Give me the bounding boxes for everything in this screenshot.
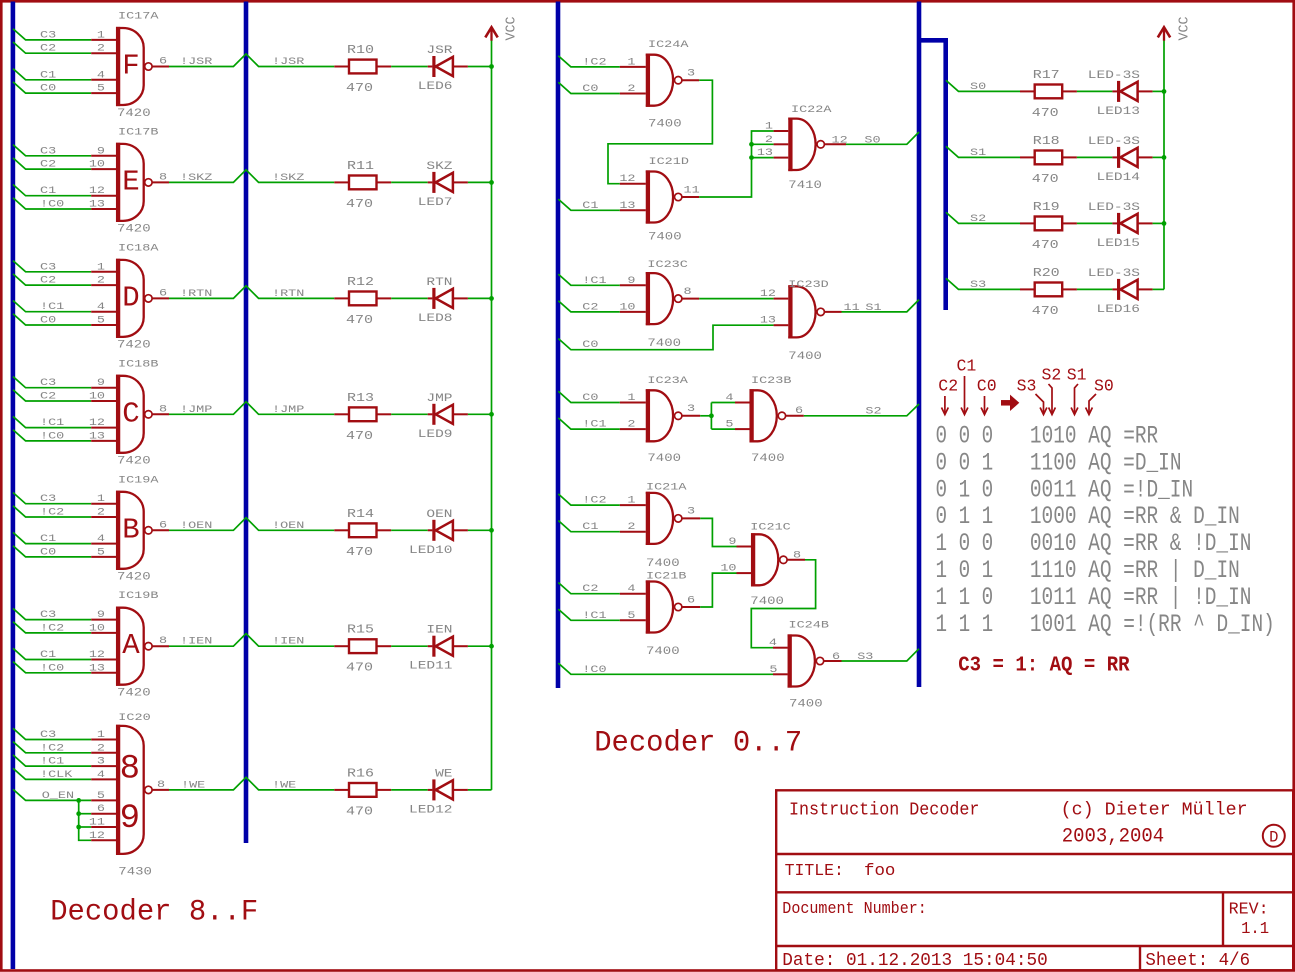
truth-table row 0 1 0 bbox=[936, 475, 1194, 504]
wire !OEN output to bus B2 bbox=[152, 518, 334, 531]
svg-text:11: 11 bbox=[684, 184, 700, 196]
svg-text:S0: S0 bbox=[864, 134, 880, 146]
svg-text:1011 AQ =RR | !D_IN: 1011 AQ =RR | !D_IN bbox=[1030, 583, 1252, 612]
svg-text:VCC: VCC bbox=[504, 17, 519, 41]
svg-text:4: 4 bbox=[769, 637, 777, 649]
svg-text:C3: C3 bbox=[40, 145, 56, 157]
svg-text:!IEN: !IEN bbox=[272, 635, 304, 647]
svg-text:C3 = 1: AQ = RR: C3 = 1: AQ = RR bbox=[958, 653, 1130, 677]
svg-text:RTN: RTN bbox=[426, 275, 452, 288]
svg-text:OEN: OEN bbox=[426, 507, 452, 520]
svg-text:Instruction Decoder: Instruction Decoder bbox=[789, 801, 979, 821]
svg-text:12: 12 bbox=[760, 287, 776, 299]
wire !C1 to IC18A pin 4 bbox=[13, 301, 116, 312]
wire C2 to IC18A pin 2 bbox=[13, 274, 116, 285]
wire LED15 to VCC rail bbox=[1153, 222, 1164, 224]
svg-text:F: F bbox=[122, 50, 139, 83]
svg-text:1010 AQ =RR: 1010 AQ =RR bbox=[1030, 421, 1158, 450]
wire IC21C out to IC24B pin 4 bbox=[751, 560, 815, 648]
svg-text:!C0: !C0 bbox=[582, 663, 606, 675]
truth-table row 1 1 0 bbox=[936, 583, 1252, 612]
svg-text:IC23A: IC23A bbox=[647, 375, 688, 387]
wire !C1 from bus B3 bbox=[558, 609, 646, 620]
svg-text:7420: 7420 bbox=[117, 107, 151, 119]
wire R10 to LED6 bbox=[391, 66, 428, 68]
svg-text:Document Number:: Document Number: bbox=[782, 900, 927, 919]
wire !C2 from bus B3 bbox=[558, 494, 646, 505]
VCC power arrow bbox=[485, 27, 497, 41]
junction bbox=[749, 142, 754, 147]
svg-text:5: 5 bbox=[97, 314, 105, 326]
VCC power arrow bbox=[1158, 27, 1170, 41]
svg-text:S0: S0 bbox=[970, 80, 986, 92]
arrow under C2 bbox=[944, 396, 946, 413]
svg-text:IC23B: IC23B bbox=[751, 375, 791, 387]
wire C3 to IC17B pin 9 bbox=[13, 145, 116, 156]
svg-text:4: 4 bbox=[97, 69, 105, 81]
svg-text:!SKZ: !SKZ bbox=[272, 171, 304, 183]
svg-text:1000 AQ =RR & D_IN: 1000 AQ =RR & D_IN bbox=[1030, 502, 1240, 531]
svg-text:S2: S2 bbox=[1042, 366, 1062, 385]
svg-text:Date: 01.12.2013 15:04:50: Date: 01.12.2013 15:04:50 bbox=[782, 951, 1047, 971]
wire C3 to IC18B pin 9 bbox=[13, 377, 116, 388]
svg-text:IC22A: IC22A bbox=[791, 103, 832, 115]
svg-text:3: 3 bbox=[687, 505, 695, 517]
svg-text:R16: R16 bbox=[347, 768, 374, 781]
svg-text:IC19B: IC19B bbox=[118, 590, 158, 602]
svg-text:C3: C3 bbox=[40, 29, 56, 41]
svg-text:VCC: VCC bbox=[1177, 17, 1192, 41]
wire C1 to IC19A pin 4 bbox=[13, 532, 116, 543]
svg-text:LED-3S: LED-3S bbox=[1088, 134, 1140, 147]
svg-text:9: 9 bbox=[97, 145, 105, 157]
resistor R20 470 bbox=[1020, 267, 1077, 318]
wire C0 from bus B3 bbox=[558, 82, 646, 93]
wire S3 from bus B5 to R20 bbox=[946, 278, 1020, 289]
wire C0 from bus B3 to IC23D pin 13 bbox=[558, 325, 788, 350]
wire !C2 from bus B3 bbox=[558, 56, 646, 67]
LED LED10 (OEN) bbox=[409, 507, 468, 556]
svg-text:7400: 7400 bbox=[789, 698, 823, 710]
svg-text:S2: S2 bbox=[970, 212, 986, 224]
svg-text:7420: 7420 bbox=[117, 339, 151, 351]
truth-table row 0 1 1 bbox=[936, 502, 1240, 531]
svg-text:2: 2 bbox=[765, 133, 773, 145]
svg-text:470: 470 bbox=[346, 806, 373, 819]
svg-text:1: 1 bbox=[97, 29, 105, 41]
svg-text:!OEN: !OEN bbox=[272, 519, 304, 531]
wire LED16 to VCC rail bbox=[1153, 288, 1164, 290]
svg-text:C: C bbox=[122, 397, 139, 430]
junction bbox=[1162, 221, 1167, 226]
svg-text:4: 4 bbox=[97, 301, 105, 313]
svg-text:C3: C3 bbox=[40, 728, 56, 740]
svg-text:B: B bbox=[122, 513, 139, 546]
svg-text:0 0 0: 0 0 0 bbox=[936, 421, 994, 450]
circled D logo bbox=[1263, 825, 1285, 847]
2-input NAND gate IC23A (7400) bbox=[646, 375, 689, 465]
wire !C0 from bus B3 to IC24B pin 5 bbox=[558, 663, 787, 674]
svg-text:3: 3 bbox=[97, 755, 105, 767]
svg-text:!WE: !WE bbox=[181, 779, 205, 791]
svg-text:2: 2 bbox=[627, 82, 635, 94]
svg-text:IC21B: IC21B bbox=[646, 570, 686, 582]
svg-text:!RTN: !RTN bbox=[272, 287, 304, 299]
svg-text:0 1 1: 0 1 1 bbox=[936, 502, 994, 531]
svg-text:C2: C2 bbox=[40, 390, 56, 402]
svg-text:C0: C0 bbox=[40, 546, 56, 558]
wire R11 to LED7 bbox=[391, 181, 428, 183]
svg-text:LED12: LED12 bbox=[409, 803, 453, 816]
bus B4 (middle output bus) bbox=[917, 2, 922, 688]
wire LED to VCC rail bbox=[468, 181, 492, 183]
svg-text:IC23C: IC23C bbox=[647, 258, 687, 270]
svg-text:1: 1 bbox=[97, 261, 105, 273]
wire R17 to LED13 bbox=[1077, 90, 1113, 92]
wire IC21D out to IC22A pin 1 (and pins 2,13) bbox=[682, 131, 788, 197]
svg-text:7420: 7420 bbox=[117, 223, 151, 235]
wire C2 from bus B3 bbox=[558, 301, 646, 312]
svg-text:7400: 7400 bbox=[751, 452, 785, 464]
junction bbox=[1162, 155, 1167, 160]
wire C1 to IC17A pin 4 bbox=[13, 69, 116, 80]
svg-text:13: 13 bbox=[619, 199, 635, 211]
svg-text:IC19A: IC19A bbox=[118, 474, 159, 486]
svg-text:3: 3 bbox=[687, 402, 695, 414]
junction bbox=[489, 528, 494, 533]
wire !JSR output to bus B2 bbox=[152, 54, 334, 67]
svg-text:C2: C2 bbox=[40, 274, 56, 286]
svg-text:7400: 7400 bbox=[646, 645, 680, 657]
junction bbox=[489, 296, 494, 301]
3-input NAND gate IC22A (7410) bbox=[788, 103, 832, 191]
svg-text:470: 470 bbox=[1032, 239, 1059, 252]
wire IC23D out S1 to bus B4 bbox=[825, 300, 920, 312]
svg-text:7400: 7400 bbox=[788, 350, 822, 362]
svg-text:1: 1 bbox=[97, 493, 105, 505]
svg-text:470: 470 bbox=[346, 314, 373, 327]
wire C2 to IC18B pin 10 bbox=[13, 390, 116, 401]
svg-text:IC18A: IC18A bbox=[118, 242, 159, 254]
wire C3 to IC19B pin 9 bbox=[13, 608, 116, 619]
svg-text:7420: 7420 bbox=[117, 571, 151, 583]
svg-text:C2: C2 bbox=[938, 377, 958, 396]
LED LED15 (LED-3S) bbox=[1088, 200, 1153, 249]
svg-text:IC18B: IC18B bbox=[118, 358, 158, 370]
LED LED13 (LED-3S) bbox=[1088, 68, 1153, 117]
wire S0 from bus B5 to R17 bbox=[946, 80, 1020, 91]
title REV bbox=[1229, 901, 1270, 940]
wire C2 to IC17A pin 2 bbox=[13, 42, 116, 53]
wire R18 to LED14 bbox=[1077, 156, 1113, 158]
svg-text:C0: C0 bbox=[582, 391, 598, 403]
2-input NAND gate IC24B (7400) bbox=[788, 619, 829, 710]
svg-text:10: 10 bbox=[89, 158, 105, 170]
resistor R15 470 bbox=[334, 624, 391, 675]
svg-text:SKZ: SKZ bbox=[426, 159, 452, 172]
svg-text:7410: 7410 bbox=[788, 179, 822, 191]
svg-text:IC23D: IC23D bbox=[788, 278, 828, 290]
wire C3 to IC18A pin 1 bbox=[13, 261, 116, 272]
svg-text:4: 4 bbox=[97, 768, 105, 780]
svg-text:IC20: IC20 bbox=[118, 711, 150, 723]
wire !SKZ output to bus B2 bbox=[152, 170, 334, 183]
svg-text:0 1 0: 0 1 0 bbox=[936, 475, 994, 504]
wire LED to VCC rail bbox=[468, 66, 492, 68]
wire IC21A out to IC21C pin 9 bbox=[682, 518, 751, 546]
bus B5 (S0..S3 bus to LED column) bbox=[917, 40, 946, 310]
svg-text:S2: S2 bbox=[865, 405, 881, 417]
svg-text:1.1: 1.1 bbox=[1241, 920, 1269, 939]
svg-text:LED-3S: LED-3S bbox=[1088, 200, 1140, 213]
LED LED6 (JSR) bbox=[418, 43, 468, 92]
svg-text:10: 10 bbox=[619, 301, 635, 313]
wire LED14 to VCC rail bbox=[1153, 156, 1164, 158]
junction bbox=[489, 644, 494, 649]
wire C0 to IC19A pin 5 bbox=[13, 546, 116, 557]
svg-text:!CLK: !CLK bbox=[40, 768, 73, 780]
svg-text:C0: C0 bbox=[582, 339, 598, 351]
svg-text:C1: C1 bbox=[40, 532, 56, 544]
svg-text:!OEN: !OEN bbox=[180, 519, 212, 531]
arrow under S3 bbox=[1036, 394, 1044, 413]
resistor R12 470 bbox=[334, 276, 391, 327]
svg-text:8: 8 bbox=[120, 750, 140, 788]
svg-text:8: 8 bbox=[159, 171, 167, 183]
truth-table row 1 1 1 bbox=[936, 610, 1275, 639]
svg-text:IC21C: IC21C bbox=[750, 521, 790, 533]
wire LED to VCC rail bbox=[468, 529, 492, 531]
svg-text:5: 5 bbox=[725, 418, 733, 430]
svg-text:0010 AQ =RR & !D_IN: 0010 AQ =RR & !D_IN bbox=[1030, 529, 1252, 558]
wire R13 to LED9 bbox=[391, 413, 428, 415]
svg-text:S0: S0 bbox=[1094, 377, 1114, 396]
svg-text:7400: 7400 bbox=[750, 595, 784, 607]
wire !C2 to IC19A pin 2 bbox=[13, 506, 116, 517]
svg-text:7400: 7400 bbox=[648, 231, 682, 243]
svg-text:6: 6 bbox=[159, 55, 167, 67]
wire IC23A out to IC23B pins 4,5 bbox=[682, 403, 749, 430]
svg-text:D: D bbox=[122, 281, 139, 314]
2-input NAND gate IC21D (7400) bbox=[646, 155, 689, 243]
svg-text:C1: C1 bbox=[40, 185, 56, 197]
wire R20 to LED16 bbox=[1077, 288, 1113, 290]
svg-text:S3: S3 bbox=[1017, 377, 1037, 396]
svg-text:6: 6 bbox=[97, 803, 105, 815]
svg-text:9: 9 bbox=[120, 800, 140, 838]
svg-text:2: 2 bbox=[97, 274, 105, 286]
svg-text:7430: 7430 bbox=[118, 866, 152, 878]
svg-text:LED14: LED14 bbox=[1096, 170, 1140, 183]
wire IC22A out S0 to bus B4 bbox=[825, 132, 919, 144]
svg-text:S3: S3 bbox=[857, 650, 873, 662]
svg-text:470: 470 bbox=[1032, 173, 1059, 186]
svg-text:470: 470 bbox=[1032, 305, 1059, 318]
svg-text:C1: C1 bbox=[40, 69, 56, 81]
4-input NAND gate IC19A (7420) bbox=[116, 474, 159, 583]
wire S1 from bus B5 to R18 bbox=[946, 146, 1020, 157]
svg-text:S1: S1 bbox=[1067, 366, 1087, 385]
svg-text:8: 8 bbox=[157, 778, 165, 790]
svg-text:7400: 7400 bbox=[648, 118, 682, 130]
4-input NAND gate IC17B (7420) bbox=[116, 126, 158, 235]
wire R16 to LED12 bbox=[391, 789, 428, 791]
wire IC24A out to IC21D pin 12 bbox=[608, 80, 712, 184]
svg-text:!C0: !C0 bbox=[40, 662, 64, 674]
svg-text:11: 11 bbox=[844, 301, 860, 313]
svg-text:R19: R19 bbox=[1033, 201, 1060, 214]
svg-text:LED-3S: LED-3S bbox=[1088, 68, 1140, 81]
svg-text:4: 4 bbox=[97, 532, 105, 544]
wire R14 to LED10 bbox=[391, 529, 428, 531]
bus B3 (middle input bus) bbox=[556, 2, 561, 689]
svg-text:10: 10 bbox=[89, 390, 105, 402]
svg-text:R18: R18 bbox=[1033, 135, 1060, 148]
truth-table row 1 0 0 bbox=[936, 529, 1252, 558]
svg-text:2: 2 bbox=[97, 506, 105, 518]
2-input NAND gate IC21A (7400) bbox=[646, 481, 687, 570]
junction bbox=[489, 180, 494, 185]
wire !WE output to bus B2 bbox=[152, 777, 334, 790]
wire C1 from bus B3 bbox=[558, 521, 646, 532]
svg-text:0 0 1: 0 0 1 bbox=[936, 448, 994, 477]
wire !C1 to IC20 pin 3 bbox=[13, 755, 116, 766]
svg-text:!JMP: !JMP bbox=[180, 403, 212, 415]
wire LED to VCC rail bbox=[468, 297, 492, 299]
svg-text:12: 12 bbox=[89, 416, 105, 428]
svg-text:C3: C3 bbox=[40, 261, 56, 273]
svg-text:5: 5 bbox=[97, 789, 105, 801]
wire R15 to LED11 bbox=[391, 645, 428, 647]
svg-text:6: 6 bbox=[795, 404, 803, 416]
svg-text:1: 1 bbox=[765, 120, 773, 132]
wire C0 from bus B3 bbox=[558, 391, 646, 402]
resistor R10 470 bbox=[334, 44, 391, 95]
svg-text:2: 2 bbox=[97, 742, 105, 754]
svg-text:!C2: !C2 bbox=[582, 494, 606, 506]
wire LED12 to VCC rail bbox=[468, 789, 492, 791]
svg-text:8: 8 bbox=[159, 403, 167, 415]
svg-text:!C1: !C1 bbox=[40, 755, 64, 767]
wire IC23C out to IC23D pin 12 bbox=[682, 298, 788, 300]
svg-text:11: 11 bbox=[89, 816, 105, 828]
svg-text:1: 1 bbox=[627, 494, 635, 506]
svg-text:S1: S1 bbox=[865, 301, 881, 313]
2-input NAND gate IC24A (7400) bbox=[646, 38, 689, 130]
svg-text:5: 5 bbox=[97, 82, 105, 94]
svg-text:C0: C0 bbox=[40, 314, 56, 326]
svg-text:C1: C1 bbox=[40, 648, 56, 660]
svg-text:LED9: LED9 bbox=[418, 427, 453, 440]
svg-text:LED13: LED13 bbox=[1096, 104, 1140, 117]
svg-text:TITLE:: TITLE: bbox=[785, 862, 844, 881]
svg-text:C1: C1 bbox=[582, 199, 598, 211]
wire !IEN output to bus B2 bbox=[152, 634, 334, 647]
svg-text:2: 2 bbox=[97, 42, 105, 54]
resistor R18 470 bbox=[1020, 135, 1077, 186]
svg-text:C1: C1 bbox=[582, 521, 598, 533]
svg-text:IC24B: IC24B bbox=[789, 619, 829, 631]
svg-text:LED16: LED16 bbox=[1096, 302, 1140, 315]
wire !JMP output to bus B2 bbox=[152, 402, 334, 415]
resistor R17 470 bbox=[1020, 69, 1077, 120]
svg-text:5: 5 bbox=[97, 546, 105, 558]
wire C1 to IC19B pin 12 bbox=[13, 648, 116, 659]
svg-text:!WE: !WE bbox=[272, 779, 296, 791]
4-input NAND gate IC19B (7420) bbox=[116, 590, 158, 699]
svg-text:foo: foo bbox=[864, 862, 895, 881]
svg-text:IC21D: IC21D bbox=[649, 155, 689, 167]
svg-text:3: 3 bbox=[687, 67, 695, 79]
LED LED8 (RTN) bbox=[418, 275, 468, 324]
svg-text:LED10: LED10 bbox=[409, 543, 453, 556]
svg-text:LED8: LED8 bbox=[418, 311, 453, 324]
junction bbox=[489, 412, 494, 417]
svg-text:REV:: REV: bbox=[1229, 901, 1269, 920]
svg-text:1: 1 bbox=[627, 391, 635, 403]
title row TITLE: foo bbox=[785, 862, 896, 881]
svg-text:1: 1 bbox=[627, 56, 635, 68]
svg-text:!C1: !C1 bbox=[40, 301, 64, 313]
junction bbox=[1162, 89, 1167, 94]
svg-text:R17: R17 bbox=[1033, 69, 1060, 82]
4-input NAND gate IC18A (7420) bbox=[116, 242, 159, 351]
wire IC23B out S2 to bus B4 bbox=[786, 404, 919, 416]
LED LED7 (SKZ) bbox=[418, 159, 468, 208]
2-input NAND gate IC23C (7400) bbox=[646, 258, 688, 349]
svg-text:!C2: !C2 bbox=[40, 622, 64, 634]
junction bbox=[489, 64, 494, 69]
svg-text:10: 10 bbox=[720, 562, 736, 574]
svg-text:!C2: !C2 bbox=[40, 742, 64, 754]
svg-text:470: 470 bbox=[346, 662, 373, 675]
wire LED to VCC rail bbox=[468, 413, 492, 415]
svg-text:JMP: JMP bbox=[426, 391, 452, 404]
svg-text:IC24A: IC24A bbox=[648, 38, 689, 50]
svg-text:C1: C1 bbox=[957, 357, 977, 376]
svg-text:Decoder 0..7: Decoder 0..7 bbox=[594, 727, 802, 761]
svg-text:10: 10 bbox=[89, 622, 105, 634]
resistor R19 470 bbox=[1020, 201, 1077, 252]
junction bbox=[76, 798, 81, 803]
svg-text:WE: WE bbox=[435, 767, 453, 780]
svg-text:C2: C2 bbox=[582, 583, 598, 595]
LED LED9 (JMP) bbox=[418, 391, 468, 440]
svg-text:0011 AQ =!D_IN: 0011 AQ =!D_IN bbox=[1030, 475, 1193, 504]
svg-text:470: 470 bbox=[346, 546, 373, 559]
wire R12 to LED8 bbox=[391, 297, 428, 299]
svg-text:A: A bbox=[122, 629, 140, 662]
wire C0 to IC18A pin 5 bbox=[13, 314, 116, 325]
svg-text:R14: R14 bbox=[347, 508, 374, 521]
resistor R11 470 bbox=[334, 160, 391, 211]
svg-text:470: 470 bbox=[346, 82, 373, 95]
svg-text:2003,2004: 2003,2004 bbox=[1062, 824, 1164, 847]
wire C3 to IC19A pin 1 bbox=[13, 493, 116, 504]
svg-text:7400: 7400 bbox=[646, 557, 680, 569]
svg-text:13: 13 bbox=[89, 430, 105, 442]
svg-text:R11: R11 bbox=[347, 160, 374, 173]
svg-text:8: 8 bbox=[159, 635, 167, 647]
svg-text:1 0 1: 1 0 1 bbox=[936, 556, 994, 585]
svg-text:!C1: !C1 bbox=[582, 609, 606, 621]
svg-text:JSR: JSR bbox=[426, 43, 452, 56]
arrow under C0 bbox=[984, 396, 986, 413]
svg-text:8: 8 bbox=[793, 549, 801, 561]
arrow under C1 bbox=[964, 376, 966, 413]
svg-text:C2: C2 bbox=[582, 301, 598, 313]
svg-text:!JSR: !JSR bbox=[272, 55, 304, 67]
